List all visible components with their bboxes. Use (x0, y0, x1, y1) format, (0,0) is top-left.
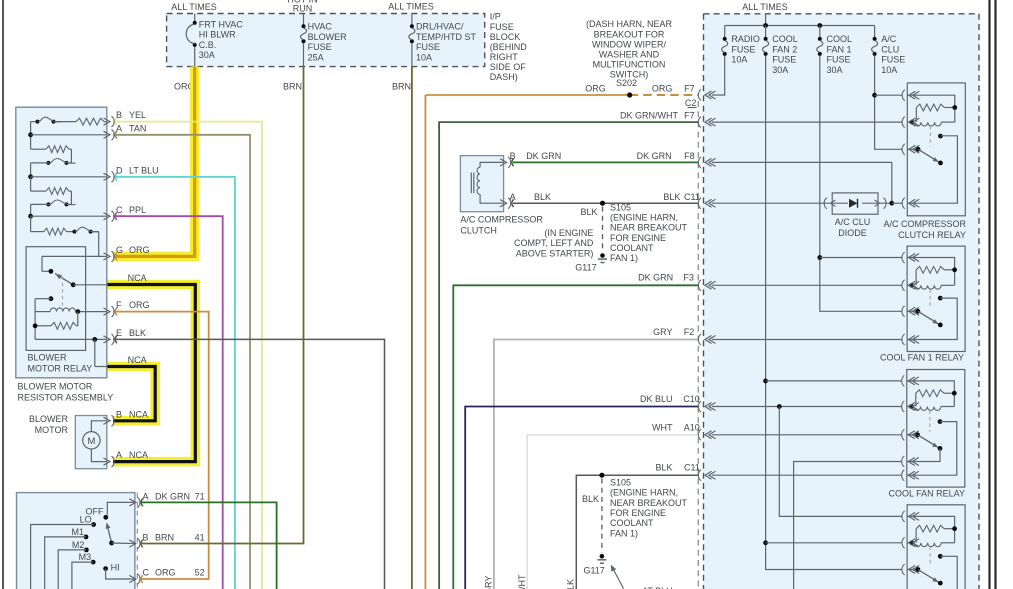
svg-text:G117: G117 (575, 262, 596, 272)
svg-text:F7: F7 (684, 111, 695, 121)
svg-text:10A: 10A (416, 52, 432, 62)
svg-text:BLOWER MOTOR: BLOWER MOTOR (18, 381, 93, 391)
svg-text:F: F (116, 300, 122, 310)
svg-text:A/C: A/C (881, 34, 897, 44)
svg-text:ORG: ORG (155, 568, 176, 578)
terminal C11 lower (698, 470, 701, 481)
svg-text:GRY: GRY (484, 576, 494, 589)
svg-text:30A: 30A (827, 65, 843, 75)
relay box (907, 370, 965, 488)
svg-text:ORG: ORG (129, 245, 150, 255)
terminal C11 (698, 198, 701, 209)
svg-text:BLOCK: BLOCK (490, 32, 521, 42)
A/C relay pin terminals (902, 90, 905, 101)
pin B YEL (104, 118, 111, 125)
row C11 to diode (712, 202, 824, 204)
svg-text:DK BLU: DK BLU (640, 394, 673, 404)
svg-text:10A: 10A (731, 55, 747, 65)
pin A TAN (104, 131, 111, 138)
svg-text:M2: M2 (72, 540, 85, 550)
svg-text:COOLANT: COOLANT (610, 518, 654, 528)
svg-text:D: D (116, 165, 123, 175)
svg-text:BRN: BRN (283, 82, 302, 92)
svg-text:E: E (116, 328, 122, 338)
svg-text:G: G (116, 245, 123, 255)
svg-text:(DASH HARN, NEAR: (DASH HARN, NEAR (586, 19, 673, 29)
svg-text:ORG: ORG (129, 300, 150, 310)
svg-text:GRY: GRY (653, 327, 672, 337)
bus bar ALL TIMES (765, 14, 767, 26)
pin G ORG (104, 253, 111, 260)
drawing right double border (988, 0, 990, 589)
svg-text:LO: LO (80, 515, 92, 525)
pin C ORG 52 (129, 575, 136, 582)
A/C compressor clutch box (460, 156, 503, 212)
svg-text:F3: F3 (683, 273, 694, 283)
svg-text:A10: A10 (684, 422, 700, 432)
svg-text:F2: F2 (684, 327, 695, 337)
svg-text:COOL: COOL (772, 34, 798, 44)
wire BRN from DRL fuse down (411, 67, 413, 589)
svg-text:DK GRN: DK GRN (155, 491, 190, 501)
svg-text:B: B (143, 533, 149, 543)
splice S202 dot (627, 92, 632, 97)
M1 contact and wire (84, 535, 89, 540)
blower motor box (75, 416, 107, 469)
svg-text:DIODE: DIODE (838, 228, 867, 238)
svg-text:ABOVE STARTER): ABOVE STARTER) (516, 248, 594, 258)
svg-text:B: B (510, 151, 516, 161)
svg-text:25A: 25A (308, 52, 324, 62)
terminal F8 (698, 157, 701, 168)
svg-text:NCA: NCA (129, 450, 148, 460)
HVAC blower switch box (17, 493, 135, 589)
svg-text:BLOWER: BLOWER (29, 414, 69, 424)
row A wire (28, 132, 33, 137)
pin D LT BLU (104, 173, 111, 180)
svg-text:S105: S105 (610, 478, 631, 488)
svg-text:FUSE: FUSE (881, 55, 905, 65)
wire WHT to terminal A10 (527, 435, 698, 589)
svg-text:DK GRN: DK GRN (638, 273, 673, 283)
pin F ORG (104, 308, 111, 315)
svg-text:FUSE: FUSE (772, 55, 796, 65)
wire cool fan 2 fuse feed (765, 56, 767, 543)
terminal F7 (C2) (698, 90, 701, 101)
svg-text:RIGHT: RIGHT (490, 52, 519, 62)
terminal F3 (698, 280, 701, 291)
row G wire into relay (42, 255, 107, 257)
svg-text:(ENGINE HARN,: (ENGINE HARN, (610, 213, 678, 223)
relay switch (907, 569, 918, 571)
wire cool fan 1 fuse feed (819, 56, 821, 258)
svg-text:NCA: NCA (128, 355, 147, 365)
svg-text:DASH): DASH) (490, 72, 518, 82)
splice S105 (lower) and ground lead (599, 473, 604, 478)
connector C2 dashed line (697, 101, 699, 589)
row C10 to cool fan relay coil (712, 406, 902, 408)
svg-text:DRL/HVAC/: DRL/HVAC/ (416, 22, 464, 32)
circuit breaker FRT HVAC HI BLWR C.B. 30A (194, 14, 196, 22)
A/C CLU diode (832, 193, 878, 214)
terminal F7 row2 (698, 117, 701, 128)
svg-text:71: 71 (195, 491, 205, 501)
row DK GRN/WHT to A/C relay coil (712, 121, 902, 123)
svg-text:BLOWER: BLOWER (28, 352, 68, 362)
LO contact and wire (91, 522, 96, 527)
relay mech link (929, 547, 931, 567)
svg-text:FAN 2: FAN 2 (772, 44, 797, 54)
M2 contact and wire (84, 548, 89, 553)
svg-text:FAN 1): FAN 1) (610, 253, 638, 263)
blower motor relay sub-box (26, 247, 86, 351)
svg-text:BLOWER: BLOWER (308, 32, 348, 42)
fuse DRL/HVAC/TEMP/HTD ST FUSE 10A (411, 14, 413, 25)
ground G117 (600, 253, 605, 258)
wire BLK from pin E (113, 339, 385, 589)
svg-text:RADIO: RADIO (731, 34, 760, 44)
wire ORG highlighted from C.B. to resistor pin G (113, 67, 195, 257)
svg-text:B: B (116, 409, 122, 419)
relay switch (907, 434, 918, 436)
wire DK GRN clutch B to terminal F8 (513, 161, 698, 163)
svg-text:41: 41 (195, 533, 205, 543)
row F3 to cool fan1 coil (712, 284, 902, 286)
svg-text:BLK: BLK (566, 579, 576, 589)
pin A NCA (motor) (104, 458, 111, 465)
branch C10 to cool fan 2 relay coil (779, 407, 902, 517)
svg-text:NEAR BREAKOUT: NEAR BREAKOUT (610, 498, 688, 508)
pin B NCA (motor) (104, 417, 111, 424)
drawing left border (2, 0, 4, 589)
svg-text:HI BLWR: HI BLWR (199, 30, 236, 40)
pin C PPL (104, 213, 111, 220)
wire BRN from HVAC BLOWER fuse to HVAC switch pin B (140, 67, 304, 544)
wire DK GRN/WHT to terminal F7 (439, 122, 698, 589)
svg-text:F8: F8 (684, 151, 695, 161)
wire NCA highlighted from resistor pin E row to blower motor pin B (107, 367, 155, 421)
svg-text:MOTOR: MOTOR (35, 425, 69, 435)
svg-text:C.B.: C.B. (199, 40, 217, 50)
svg-text:COOL FAN 1 RELAY: COOL FAN 1 RELAY (880, 353, 964, 363)
relay box (907, 83, 965, 216)
svg-text:HVAC: HVAC (308, 22, 333, 32)
terminal A10 (698, 429, 701, 440)
junction dot a/c clu fuse - coil (872, 93, 877, 98)
terminal F2 (698, 334, 701, 345)
svg-text:FUSE: FUSE (490, 22, 514, 32)
relay internal route (907, 136, 957, 203)
arrow pointing to G117 (612, 566, 624, 589)
svg-text:30A: 30A (772, 65, 788, 75)
svg-text:MULTIFUNCTION: MULTIFUNCTION (593, 59, 666, 69)
resistor ladder row B: limiter + resistor (31, 121, 36, 123)
clutch plates (470, 173, 472, 194)
row E wire (35, 338, 107, 340)
svg-text:BLK: BLK (655, 463, 672, 473)
OFF contact (103, 515, 108, 520)
splice S105 dot and dashed ground lead (600, 201, 605, 206)
clutch coil (480, 162, 504, 167)
rung resistor 1 (31, 148, 46, 150)
svg-text:MOTOR RELAY: MOTOR RELAY (28, 363, 93, 373)
pin A DK GRN 71 (129, 499, 136, 506)
svg-text:WINDOW WIPER/: WINDOW WIPER/ (592, 39, 666, 49)
rail (30, 122, 32, 150)
svg-text:30A: 30A (199, 50, 215, 60)
M3 contact and wire (91, 560, 96, 565)
svg-text:COOL FAN RELAY: COOL FAN RELAY (888, 489, 965, 499)
svg-text:DK GRN/WHT: DK GRN/WHT (620, 111, 678, 121)
wire PPL from pin C (113, 216, 223, 589)
relay switch contact (upper) (49, 269, 54, 274)
relay switch (907, 310, 918, 312)
wire YEL from pin B (113, 122, 262, 589)
svg-text:FRT HVAC: FRT HVAC (199, 19, 244, 29)
svg-text:B: B (116, 110, 122, 120)
relay coil (907, 95, 955, 122)
svg-text:FAN 1: FAN 1 (827, 44, 852, 54)
rung resistor 2 (30, 177, 32, 191)
svg-text:CLUTCH RELAY: CLUTCH RELAY (898, 230, 966, 240)
relay switch pivot dot (71, 282, 76, 287)
switch connector dashed line (136, 493, 138, 589)
svg-text:SIDE OF: SIDE OF (490, 62, 527, 72)
relay mech dashed link (62, 276, 64, 306)
svg-text:A/C COMPRESSOR: A/C COMPRESSOR (460, 214, 543, 224)
relay internal route (907, 448, 940, 461)
svg-text:A: A (116, 123, 122, 133)
svg-text:WHT: WHT (517, 574, 527, 589)
pin B BRN 41 (129, 540, 136, 547)
svg-text:CLU: CLU (881, 44, 899, 54)
wire a/c clu fuse feed (874, 56, 876, 96)
svg-text:A/C COMPRESSOR: A/C COMPRESSOR (883, 219, 966, 229)
HI contact and wire to pin C (103, 566, 108, 571)
svg-text:NCA: NCA (129, 409, 148, 419)
svg-text:BLK: BLK (663, 192, 680, 202)
svg-text:BRN: BRN (155, 533, 174, 543)
svg-text:(ENGINE HARN,: (ENGINE HARN, (610, 488, 678, 498)
svg-text:TAN: TAN (129, 123, 146, 133)
svg-text:BREAKOUT FOR: BREAKOUT FOR (594, 29, 665, 39)
relay internal route (907, 422, 957, 476)
rung resistor 3 (bottom) (30, 216, 32, 231)
fuse RADIO FUSE 10A (724, 26, 726, 38)
svg-text:C11: C11 (684, 192, 700, 202)
relay box (907, 246, 965, 351)
svg-text:PPL: PPL (129, 205, 146, 215)
svg-text:I/P: I/P (490, 12, 501, 22)
fuse A/C CLU FUSE 10A (874, 26, 876, 38)
svg-text:BLK: BLK (580, 207, 597, 217)
svg-text:ORG: ORG (652, 83, 673, 93)
svg-text:NCA: NCA (128, 273, 147, 283)
ground G117 (lower) (600, 554, 605, 559)
row C wire (28, 214, 33, 219)
pin E BLK (104, 336, 111, 343)
pin B (clutch) (500, 159, 507, 166)
row A10 to cool fan relay common (712, 434, 902, 436)
relay coil (907, 516, 955, 542)
pin A (clutch) (500, 200, 507, 207)
motor symbol M (83, 432, 100, 449)
svg-text:C: C (143, 568, 150, 578)
switch arm (107, 524, 112, 544)
svg-text:(IN ENGINE: (IN ENGINE (544, 228, 593, 238)
svg-text:ALL TIMES: ALL TIMES (742, 2, 788, 12)
fuse HVAC BLOWER FUSE 25A (303, 14, 305, 25)
diode junction dot (889, 201, 894, 206)
junction cool fan 2 fuse at 381 (763, 379, 768, 384)
svg-text:FUSE: FUSE (308, 42, 332, 52)
blower motor internal wires (91, 421, 107, 432)
I/P fuse block dashed box (167, 14, 485, 67)
svg-text:C11: C11 (684, 463, 700, 473)
relay switch (907, 148, 918, 150)
svg-text:52: 52 (195, 568, 205, 578)
svg-text:10A: 10A (881, 65, 897, 75)
svg-text:WASHER AND: WASHER AND (599, 49, 660, 59)
row F2 to cool fan1 pin4 (712, 339, 902, 341)
svg-text:LT BLU: LT BLU (129, 165, 159, 175)
wire BLK to terminal C11 (lower) (576, 475, 698, 589)
svg-text:BLK: BLK (582, 494, 599, 504)
svg-text:FOR ENGINE: FOR ENGINE (610, 508, 666, 518)
cool fan relay pin4 wire down (794, 462, 902, 589)
svg-text:ALL TIMES: ALL TIMES (388, 2, 434, 12)
blower motor resistor assembly box (16, 107, 107, 378)
svg-text:M: M (87, 436, 95, 447)
wire GRY to terminal F2 (494, 340, 698, 589)
svg-text:DK GRN: DK GRN (637, 151, 672, 161)
svg-text:FUSE: FUSE (731, 44, 755, 54)
svg-text:FAN 1): FAN 1) (610, 528, 638, 538)
relay coil inductor (78, 311, 107, 313)
svg-text:M1: M1 (71, 527, 84, 537)
row D wire (28, 174, 33, 179)
svg-text:S105: S105 (610, 202, 631, 212)
NCA drop from E row (94, 339, 96, 366)
svg-text:ORG: ORG (585, 83, 606, 93)
svg-text:A: A (510, 192, 516, 202)
svg-text:CLUTCH: CLUTCH (460, 225, 497, 235)
relay mech link (929, 126, 931, 146)
wire TAN from pin A (113, 135, 250, 589)
svg-text:COOL: COOL (827, 34, 853, 44)
wire radio fuse to terminal F7 (712, 56, 725, 96)
relay internal route (907, 298, 957, 339)
wire ORG from pin F to HVAC switch pin C (113, 312, 209, 579)
relay internal route (940, 556, 957, 589)
svg-text:BRN: BRN (392, 82, 411, 92)
svg-text:C10: C10 (683, 394, 700, 404)
svg-text:TEMP/HTD ST: TEMP/HTD ST (416, 32, 477, 42)
svg-text:COOLANT: COOLANT (610, 243, 654, 253)
wire DK GRN to terminal F3 (453, 285, 698, 589)
row C11 to cool fan relay pin5 (712, 474, 902, 476)
underhood fuse block dashed box (704, 14, 980, 589)
svg-text:COMPT, LEFT AND: COMPT, LEFT AND (514, 238, 594, 248)
svg-text:G117: G117 (583, 566, 604, 576)
svg-text:A/C CLU: A/C CLU (835, 217, 871, 227)
wire NCA highlighted from blower motor relay to blower motor pin A (107, 285, 195, 462)
relay coil (907, 381, 955, 407)
wire ORG to splice S202 and dashed to F7 (425, 94, 629, 96)
relay mech link (929, 411, 931, 432)
svg-text:HI: HI (111, 563, 120, 573)
wire LT BLU from pin D (113, 177, 235, 589)
svg-text:RESISTOR ASSEMBLY: RESISTOR ASSEMBLY (18, 392, 114, 402)
relay lower contact (49, 296, 54, 301)
svg-text:FUSE: FUSE (416, 42, 440, 52)
svg-text:M3: M3 (79, 552, 92, 562)
svg-text:S202: S202 (616, 78, 637, 88)
svg-text:YEL: YEL (129, 110, 146, 120)
svg-text:ALL TIMES: ALL TIMES (171, 2, 217, 12)
junction cool fan2 fuse at 542.8 (763, 540, 768, 545)
wire DK BLU to terminal C10 (465, 407, 698, 589)
switch feed from pin A to OFF contact (107, 502, 135, 514)
terminal C10 (698, 401, 701, 412)
relay mech link (929, 289, 931, 308)
svg-text:C2: C2 (685, 98, 697, 108)
svg-text:FOR ENGINE: FOR ENGINE (610, 233, 666, 243)
wire BLK clutch A to terminal C11 (513, 202, 698, 204)
row F8 to diode junction (712, 162, 892, 203)
svg-text:BLK: BLK (534, 192, 551, 202)
relay box (907, 505, 965, 589)
svg-text:A: A (143, 491, 149, 501)
relay coil (907, 258, 955, 286)
svg-text:DK GRN: DK GRN (526, 151, 561, 161)
svg-text:C: C (116, 205, 123, 215)
svg-text:RUN: RUN (293, 3, 313, 13)
fuse COOL FAN 2 FUSE 30A (765, 26, 767, 38)
relay switch arm with arrow (55, 274, 73, 285)
svg-text:F7: F7 (684, 83, 695, 93)
svg-text:(BEHIND: (BEHIND (490, 42, 528, 52)
fuse COOL FAN 1 FUSE 30A (819, 26, 821, 38)
svg-text:FUSE: FUSE (827, 55, 851, 65)
relay coil resistor (34, 299, 36, 340)
svg-text:BLK: BLK (129, 328, 146, 338)
svg-text:A: A (116, 450, 122, 460)
svg-text:NEAR BREAKOUT: NEAR BREAKOUT (610, 223, 688, 233)
junction cool fan1 fuse (817, 255, 822, 260)
wire DK GRN 71 from HVAC switch pin A (140, 502, 277, 589)
svg-text:WHT: WHT (652, 422, 673, 432)
